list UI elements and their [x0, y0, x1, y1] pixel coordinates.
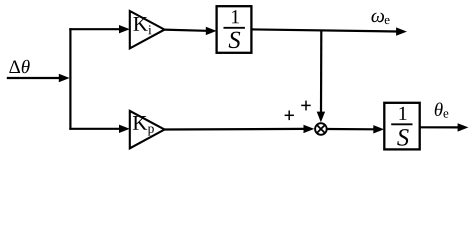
summing junction circle with X: [315, 123, 327, 135]
wire lower horizontal to Kp: [69, 128, 120, 130]
amplifier Ki triangle: [130, 11, 165, 48]
arrowhead into integrator 2: [373, 125, 384, 133]
arrowhead into Ki: [119, 25, 130, 33]
node theta_e label: [435, 103, 443, 116]
wire summer to integrator 2: [327, 128, 374, 131]
integrator block 1/S (lower): [384, 103, 419, 150]
arrowhead into summer from left: [304, 125, 315, 133]
arrowhead into integrator 1: [206, 27, 217, 35]
wire integrator 1 to omega output: [251, 29, 397, 31]
arrowhead into Kp: [119, 125, 130, 133]
wire input horizontal: [7, 77, 60, 79]
label Ki: [133, 17, 147, 31]
arrowhead omega output: [396, 27, 407, 35]
arrowhead down into summer: [317, 112, 325, 123]
wire Ki to integrator 1: [164, 30, 207, 31]
wire integrator 2 to theta output: [420, 126, 459, 128]
wire junction vertical: [69, 28, 71, 130]
wire Kp to summer: [164, 128, 305, 131]
wire upper horizontal to Ki: [69, 28, 120, 30]
amplifier Kp triangle: [130, 111, 165, 148]
wire branch down to summer: [320, 30, 322, 114]
label Kp: [133, 116, 147, 130]
arrowhead into junction: [59, 74, 70, 82]
plus sign lower: [285, 114, 294, 116]
plus sign upper: [301, 104, 311, 106]
arrowhead theta output: [458, 123, 469, 131]
node omega_e label: [371, 13, 384, 23]
node deltatheta label: [9, 60, 20, 73]
integrator block 1/S (upper): [217, 6, 252, 53]
